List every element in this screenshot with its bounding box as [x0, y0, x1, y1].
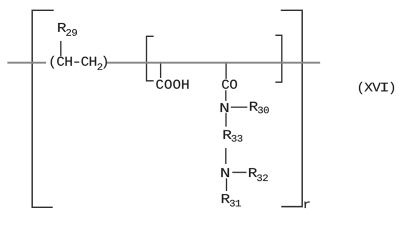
label R32: [249, 168, 268, 181]
inner left bracket: [147, 36, 154, 81]
bond R33 to N: [225, 149, 227, 164]
bond N to R32: [233, 171, 246, 173]
label N amine: [221, 168, 229, 177]
label R29: [58, 23, 77, 36]
bond CO to N: [225, 91, 227, 100]
wire main chain right segment: [108, 62, 319, 64]
bond N to R31: [226, 179, 228, 190]
label CO: [222, 80, 237, 89]
bond R29 to CH: [60, 42, 62, 56]
bond chain to CO: [225, 63, 227, 79]
label formula number (XVI): [359, 82, 394, 94]
outer right bracket: [282, 10, 303, 206]
label N amide: [221, 103, 229, 112]
label R33: [224, 130, 243, 141]
label R30: [250, 102, 269, 113]
label repeat subscript r: [304, 202, 309, 208]
label R31: [222, 194, 241, 206]
outer left bracket: [32, 10, 53, 207]
label COOH: [156, 80, 188, 89]
wire main chain left segment: [8, 62, 45, 64]
bond N to R33: [225, 113, 227, 126]
label (CH-CH2) monomer: [51, 56, 107, 70]
inner right bracket: [276, 35, 282, 82]
bond N to R30: [232, 106, 247, 108]
bond chain to COOH: [160, 63, 162, 78]
